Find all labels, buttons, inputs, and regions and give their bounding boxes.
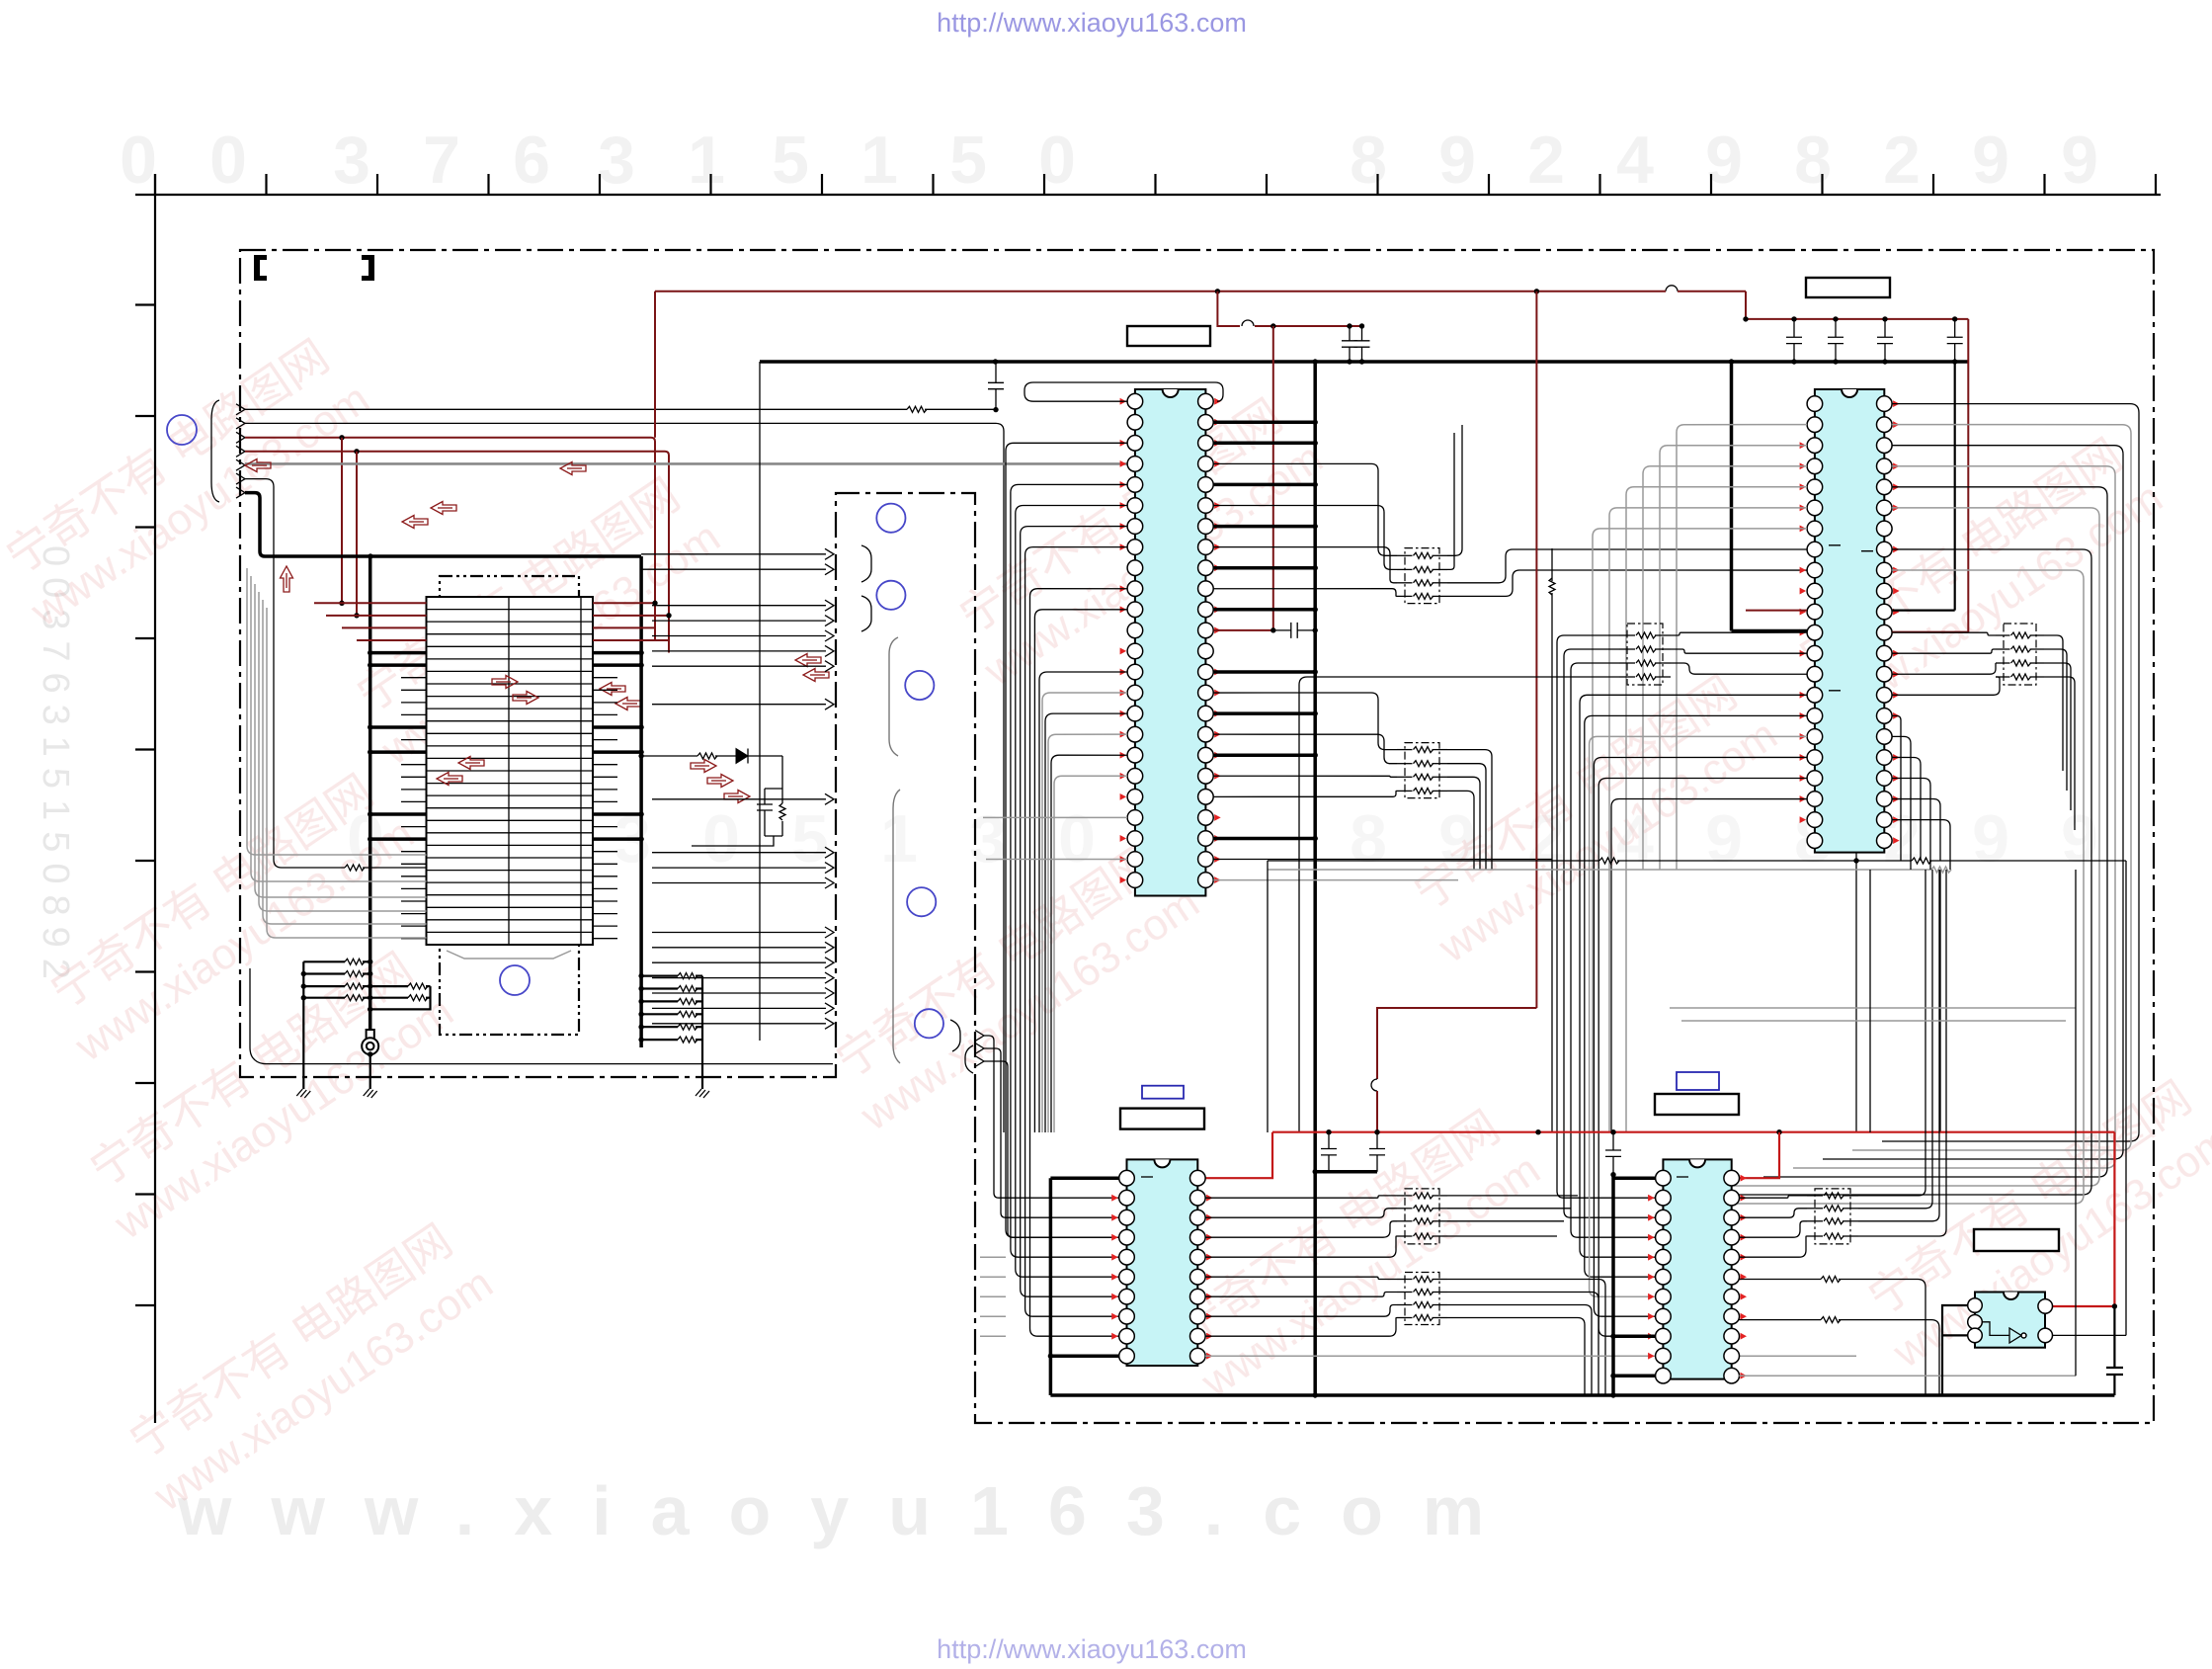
- blue label IC3: [1142, 1086, 1184, 1099]
- resistor network RN1: [1405, 548, 1439, 604]
- svg-text:www.xiaoyu163.com: www.xiaoyu163.com: [177, 1472, 1523, 1549]
- screw terminal E1: [367, 1030, 374, 1039]
- wire J1-6: [245, 479, 345, 868]
- IC1 right long wires: [1213, 859, 1552, 861]
- faint serial digits top: [120, 123, 2098, 198]
- diode D1 circuit: [638, 753, 643, 758]
- red rail B drop: [1967, 319, 1969, 632]
- pink watermarks: [0, 324, 2212, 1521]
- ground bus: [1050, 1393, 2114, 1397]
- IC4 right resistor wires: [1739, 1279, 1821, 1281]
- IC2 dash labels: [1829, 545, 1873, 691]
- section label brackets: [254, 255, 267, 281]
- svg-text:8: 8: [1350, 123, 1387, 198]
- resistor pair RB2: [368, 983, 431, 1012]
- IC2 bottom wires: [1853, 858, 1858, 863]
- connector exit arrows: [975, 1031, 984, 1042]
- svg-text:7: 7: [423, 123, 460, 198]
- IC2 right lower wires: [1892, 715, 1901, 861]
- red rail B: [1746, 292, 1968, 319]
- IC1 right bus: [1313, 362, 1317, 1395]
- red riser to top rail: [654, 292, 656, 438]
- caps C13 C14: [1321, 1132, 1337, 1172]
- wire J1-3 red: [245, 438, 655, 640]
- black label IC4: [1655, 1094, 1739, 1115]
- IC1 right thick wires: [1213, 421, 1315, 425]
- IC2 left thick wire: [1732, 629, 1808, 633]
- IC4 left bus: [1611, 1175, 1615, 1395]
- wire J1-7: [245, 493, 370, 556]
- long thin bottom wire: [250, 968, 833, 1064]
- IC1 left lower wires: [1039, 672, 1127, 1132]
- svg-text:http://www.xiaoyu163.com: http://www.xiaoyu163.com: [937, 1634, 1247, 1664]
- left bus: [369, 556, 372, 1047]
- resistor network RN4b: [1405, 1273, 1439, 1325]
- cap C15: [1605, 1132, 1621, 1175]
- resistor column RB3: [638, 973, 702, 1077]
- resistor network RN2: [1405, 743, 1439, 798]
- IC2 left gray drop wires: [1677, 425, 1807, 870]
- IC U2: [1800, 389, 1900, 853]
- IC2 right wires long: [1882, 404, 2139, 1141]
- red drop to IC1: [1272, 326, 1274, 632]
- main black top bus: [760, 360, 1362, 364]
- svg-text:9: 9: [2061, 801, 2098, 876]
- bottom red bus: [1272, 1131, 2114, 1133]
- svg-text:1: 1: [860, 123, 898, 198]
- wire J1-1 with resistor: [245, 408, 907, 410]
- svg-text:3: 3: [598, 123, 635, 198]
- IC3 left bus: [1049, 1178, 1053, 1395]
- svg-text:0: 0: [209, 123, 247, 198]
- wire J1-2: [245, 423, 1004, 1132]
- IC4 right wires: [1739, 1196, 1807, 1198]
- svg-text:8: 8: [1350, 801, 1387, 876]
- label rect L1: [1806, 278, 1890, 297]
- red mid vertical: [1535, 292, 1537, 1008]
- mid vertical with resistor: [1551, 548, 1553, 581]
- gray pair to IC6 area: [1670, 1007, 2076, 1009]
- resistor network RN4a: [1405, 1189, 1439, 1244]
- chevron under transformer: [447, 951, 571, 959]
- IC3 dash: [1141, 1176, 1153, 1178]
- IC2 right thick wire: [1892, 609, 1955, 611]
- svg-text:http://www.xiaoyu163.com: http://www.xiaoyu163.com: [937, 8, 1247, 38]
- black label IC3: [1120, 1109, 1204, 1129]
- IC3 right wires: [1205, 1196, 1397, 1198]
- right bus: [639, 556, 643, 1047]
- red to IC6: [2052, 1132, 2114, 1306]
- rail B caps C9-C12: [1786, 319, 1802, 362]
- resistor network RN3: [1671, 632, 1807, 635]
- IC2 left red wire: [1746, 610, 1807, 612]
- ground G1: [302, 1077, 304, 1089]
- wire J1-4 red: [245, 452, 669, 653]
- IC1 pin1 loop wire: [1024, 382, 1223, 401]
- svg-text:9: 9: [2061, 123, 2098, 198]
- IC6 wires: [1942, 1305, 1968, 1335]
- right area verticals: [2075, 870, 2077, 1376]
- svg-text:0: 0: [1058, 801, 1096, 876]
- svg-text:1: 1: [880, 801, 918, 876]
- red up arrow: [281, 566, 293, 592]
- svg-text:1: 1: [688, 123, 725, 198]
- RN1 right wires: [1447, 425, 1462, 555]
- gray wire bundle lower left: [247, 568, 427, 855]
- circle J1: [167, 415, 197, 445]
- svg-text:2: 2: [1527, 123, 1565, 198]
- svg-text:4: 4: [1616, 123, 1654, 198]
- red drop IC4: [1739, 1132, 1779, 1179]
- cap C5: [988, 362, 1004, 410]
- resistor network RN5: [1815, 1189, 1850, 1244]
- IC3 left gray feeds: [980, 1256, 1006, 1258]
- red drop wires: [341, 438, 343, 604]
- left drop wire: [759, 362, 761, 1041]
- wire J1-5 gray: [245, 462, 1127, 465]
- label rect L2: [1127, 326, 1210, 346]
- ground G3: [701, 1077, 703, 1089]
- top red rail: [655, 291, 1217, 292]
- svg-text:3: 3: [333, 123, 370, 198]
- IC4 dash: [1677, 1176, 1688, 1178]
- svg-text:0: 0: [702, 801, 740, 876]
- top ruler: [135, 174, 2161, 195]
- V+ link: [1315, 1170, 1377, 1174]
- ground G2: [369, 1054, 371, 1089]
- transformer block: [427, 597, 594, 945]
- feed wires to connector strip: [641, 548, 834, 1029]
- right feedback vertical: [2125, 861, 2127, 1335]
- label near IC6: [1974, 1229, 2059, 1251]
- IC U3: [1111, 1159, 1212, 1366]
- red jog to bottom: [1377, 1008, 1536, 1079]
- IC2 under-vertical: [1855, 861, 1857, 1132]
- IC1 left gray rows: [983, 816, 1127, 818]
- IC U6 inverter: [1968, 1293, 2053, 1348]
- bracket for J1: [211, 400, 219, 502]
- IC2 left bundle down: [1580, 695, 1807, 1257]
- IC1 left bundle to bottom: [1006, 443, 1127, 1237]
- transformer row stubs: [314, 603, 669, 938]
- svg-text:8: 8: [1794, 123, 1832, 198]
- blue label IC4: [1677, 1072, 1719, 1090]
- transformer top bus: [370, 554, 641, 558]
- IC1 red pin wire + cap C8: [1213, 629, 1272, 631]
- board outline dash-dot: [240, 250, 2154, 1423]
- transformer inner dash-dot box: [440, 576, 579, 1035]
- IC U4: [1648, 1159, 1747, 1383]
- connector circle T1: [500, 965, 530, 995]
- svg-text:9: 9: [1972, 801, 2009, 876]
- svg-text:9: 9: [1705, 801, 1743, 876]
- cap C6 C7 pair: [1217, 292, 1240, 326]
- svg-text:5: 5: [772, 123, 809, 198]
- svg-text:5: 5: [949, 123, 987, 198]
- svg-text:2: 2: [1883, 123, 1921, 198]
- cap C16: [2113, 1306, 2115, 1368]
- IC4 bottom gray: [1739, 1375, 2076, 1377]
- svg-text:9: 9: [1438, 123, 1476, 198]
- IC1 right thin wires to RN boxes: [1213, 463, 1397, 555]
- IC2 right red wire: [1892, 631, 1968, 633]
- IC U1: [1120, 389, 1221, 896]
- red drop IC3: [1205, 1132, 1272, 1179]
- svg-text:0: 0: [120, 123, 157, 198]
- faint serial digits middle: [347, 801, 2098, 876]
- RN6 resistor box right of IC2: [2004, 624, 2036, 685]
- connector J1 arrows left edge: [236, 404, 245, 415]
- resistor bank RB1: [301, 959, 373, 1077]
- connector strip circles and brackets: [876, 504, 905, 533]
- svg-text:6: 6: [513, 123, 550, 198]
- red signal arrows: [245, 459, 271, 472]
- svg-text:9: 9: [1972, 123, 2009, 198]
- IC3 bottom gray wire: [1205, 1355, 1856, 1357]
- left ruler: [135, 174, 155, 1423]
- svg-text:5: 5: [791, 801, 829, 876]
- black drop to IC2: [1729, 359, 1734, 364]
